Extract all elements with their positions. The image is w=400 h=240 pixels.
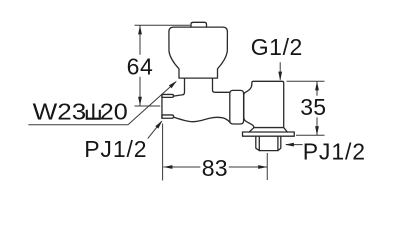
svg-text:W23: W23 [33, 99, 86, 125]
svg-text:64: 64 [127, 54, 154, 80]
svg-text:83: 83 [202, 155, 228, 181]
svg-text:20: 20 [100, 99, 128, 125]
svg-text:PJ1/2: PJ1/2 [84, 136, 147, 162]
svg-text:PJ1/2: PJ1/2 [303, 138, 366, 164]
svg-text:G1/2: G1/2 [251, 34, 303, 60]
svg-text:35: 35 [300, 94, 326, 120]
